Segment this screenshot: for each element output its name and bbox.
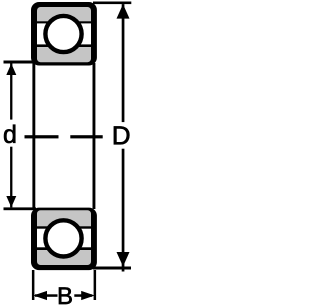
B extension line right bbox=[94, 270, 97, 300]
label d bbox=[4, 125, 15, 143]
label D bbox=[114, 126, 129, 144]
bottom section ring body (gray) bbox=[37, 210, 91, 265]
d extension line bottom bbox=[4, 207, 37, 210]
right bore line bbox=[93, 63, 96, 209]
B dimension line left segment bbox=[35, 294, 58, 297]
B arrow right bbox=[81, 291, 95, 300]
top ball bbox=[45, 16, 81, 52]
axis centerline dash left bbox=[25, 135, 59, 138]
d dimension line upper segment bbox=[10, 64, 12, 120]
D line stub below bottom extension bbox=[122, 267, 125, 272]
D dimension line lower segment bbox=[122, 149, 125, 267]
D arrow up bbox=[117, 4, 130, 19]
B arrow left bbox=[33, 291, 47, 300]
top section ring body (gray) bbox=[37, 7, 91, 62]
label B bbox=[59, 287, 72, 304]
d arrow up bbox=[6, 64, 16, 76]
top bearing section outer boundary (black rounded rect) bbox=[31, 2, 97, 66]
axis centerline dash right bbox=[70, 135, 102, 138]
D extension line top bbox=[93, 2, 131, 5]
top section raceway band lines bbox=[37, 21, 91, 47]
d dimension line lower segment bbox=[10, 147, 12, 208]
bottom section raceway white band bbox=[37, 229, 91, 248]
bottom section raceway band lines bbox=[37, 226, 91, 250]
top section raceway white band bbox=[37, 23, 91, 44]
B extension line left bbox=[32, 270, 35, 300]
bottom ball bbox=[45, 220, 81, 256]
d extension line top bbox=[4, 61, 37, 64]
D dimension line upper segment bbox=[122, 4, 125, 122]
D arrow down bbox=[117, 252, 130, 267]
bottom bearing section outer boundary (black rounded rect) bbox=[31, 208, 97, 271]
left bore line bbox=[32, 63, 35, 209]
D extension line bottom bbox=[93, 267, 131, 270]
d arrow down bbox=[6, 196, 16, 207]
B dimension line right segment bbox=[74, 294, 92, 297]
